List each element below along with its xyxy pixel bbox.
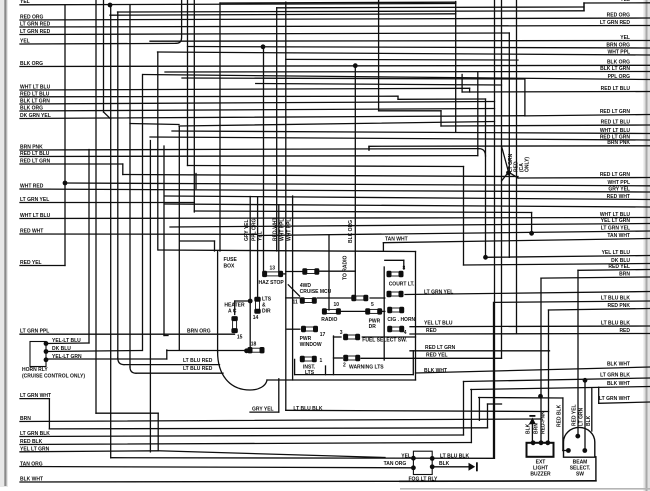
- svg-text:RED YEL: RED YEL: [572, 404, 578, 426]
- svg-text:RED LT BLU: RED LT BLU: [20, 151, 50, 157]
- svg-text:RED BLK: RED BLK: [20, 439, 43, 445]
- svg-text:RED ORG: RED ORG: [20, 14, 43, 20]
- svg-text:LT GRN RED: LT GRN RED: [20, 21, 51, 27]
- svg-text:WHT PPL: WHT PPL: [280, 219, 286, 242]
- svg-text:FOG LT RLY: FOG LT RLY: [409, 476, 439, 482]
- svg-text:RADIO: RADIO: [321, 317, 337, 323]
- svg-text:BLK LT GRN: BLK LT GRN: [20, 98, 50, 104]
- svg-text:TAN WHT: TAN WHT: [607, 233, 630, 239]
- svg-text:RED WHT: RED WHT: [20, 228, 43, 234]
- svg-text:TAN ORG: TAN ORG: [384, 461, 407, 467]
- svg-text:LT GRN: LT GRN: [579, 407, 585, 426]
- svg-text:ONLY): ONLY): [525, 157, 531, 172]
- svg-text:PPL ORG: PPL ORG: [608, 74, 631, 80]
- svg-text:YEL LT GRN: YEL LT GRN: [20, 446, 50, 452]
- svg-text:LT BLU BLK: LT BLU BLK: [601, 295, 630, 301]
- svg-text:FUSE: FUSE: [224, 257, 238, 263]
- svg-text:BUZZER: BUZZER: [530, 472, 551, 478]
- svg-text:GRY YEL: GRY YEL: [252, 406, 274, 412]
- svg-text:BLK WHT: BLK WHT: [607, 361, 630, 367]
- svg-text:BLK LT GRN: BLK LT GRN: [600, 66, 630, 72]
- svg-text:GRY YEL: GRY YEL: [244, 219, 250, 241]
- svg-text:DK BLU: DK BLU: [52, 346, 71, 352]
- svg-text:DR: DR: [369, 324, 377, 330]
- svg-text:LT GRN BLK: LT GRN BLK: [20, 431, 50, 437]
- svg-text:LTS: LTS: [305, 370, 315, 376]
- svg-text:YEL: YEL: [20, 0, 30, 5]
- svg-text:WHT LT BLU: WHT LT BLU: [20, 84, 51, 90]
- svg-text:BLK: BLK: [526, 423, 532, 434]
- svg-text:15: 15: [237, 335, 243, 341]
- svg-text:TAN WHT: TAN WHT: [385, 237, 408, 243]
- svg-text:LT BLU RED: LT BLU RED: [183, 366, 213, 372]
- svg-text:LT GRN YEL: LT GRN YEL: [424, 290, 453, 296]
- svg-text:4: 4: [404, 330, 407, 336]
- svg-text:CRUISE MCU: CRUISE MCU: [300, 289, 332, 295]
- svg-text:11: 11: [293, 300, 299, 306]
- svg-text:RED LT GRN: RED LT GRN: [20, 158, 51, 164]
- svg-text:TO RADIO: TO RADIO: [343, 256, 349, 280]
- svg-text:BRN PNK: BRN PNK: [20, 144, 43, 150]
- svg-text:FUEL SELECT SW.: FUEL SELECT SW.: [362, 338, 407, 344]
- svg-text:COURT LT.: COURT LT.: [389, 282, 415, 288]
- svg-text:HORN RLY: HORN RLY: [22, 367, 48, 373]
- svg-text:17: 17: [320, 332, 326, 338]
- svg-text:WHT PPL: WHT PPL: [608, 180, 631, 186]
- svg-text:PPL ORG: PPL ORG: [251, 218, 257, 241]
- svg-text:RED: RED: [619, 328, 630, 334]
- svg-text:RED ORG: RED ORG: [607, 12, 630, 18]
- svg-text:LT GRN RED: LT GRN RED: [600, 20, 631, 26]
- svg-text:BRN: BRN: [534, 423, 540, 434]
- svg-text:14: 14: [253, 315, 259, 321]
- svg-text:18: 18: [251, 342, 257, 348]
- svg-text:RED-WHT: RED-WHT: [273, 217, 279, 241]
- svg-text:BLK ORG: BLK ORG: [607, 60, 630, 66]
- svg-text:LT BLU BLK: LT BLU BLK: [601, 320, 630, 326]
- svg-text:BOX: BOX: [224, 264, 236, 270]
- svg-text:RED PNK: RED PNK: [607, 303, 630, 309]
- svg-text:LT GRN WHT: LT GRN WHT: [20, 393, 51, 399]
- svg-text:BLK: BLK: [439, 461, 450, 467]
- svg-text:WINDOW: WINDOW: [300, 342, 322, 348]
- svg-text:BLK ORG: BLK ORG: [348, 220, 354, 243]
- svg-text:BRN: BRN: [619, 271, 630, 277]
- svg-text:13: 13: [270, 265, 276, 271]
- svg-text:BRN ORG: BRN ORG: [187, 328, 211, 334]
- svg-text:LT GRN BLK: LT GRN BLK: [600, 372, 630, 378]
- svg-text:GRY YEL: GRY YEL: [608, 186, 630, 192]
- svg-text:RED LT BLU: RED LT BLU: [601, 86, 631, 92]
- svg-text:YEL LT GRN: YEL LT GRN: [601, 218, 631, 224]
- svg-text:LT GRN WHT: LT GRN WHT: [599, 396, 630, 402]
- svg-text:CIG . HORN: CIG . HORN: [387, 317, 415, 323]
- svg-text:RED WHT: RED WHT: [607, 194, 630, 200]
- svg-text:BLK ORG: BLK ORG: [20, 61, 43, 67]
- svg-text:RED YEL: RED YEL: [426, 352, 448, 358]
- svg-text:3: 3: [340, 330, 343, 336]
- svg-text:WHT LT BLU: WHT LT BLU: [600, 128, 631, 134]
- svg-text:YEL: YEL: [401, 453, 411, 459]
- svg-text:WHT RED: WHT RED: [20, 183, 44, 189]
- svg-text:BRN ORG: BRN ORG: [606, 42, 630, 48]
- svg-text:WHT PPL: WHT PPL: [286, 219, 292, 242]
- svg-text:LT GRN YEL: LT GRN YEL: [20, 197, 49, 203]
- svg-text:TAN ORG: TAN ORG: [20, 461, 43, 467]
- svg-text:BLK WHT: BLK WHT: [20, 476, 43, 482]
- svg-text:YEL: YEL: [258, 231, 264, 241]
- svg-text:RED LT BLU: RED LT BLU: [601, 119, 631, 125]
- svg-text:LT GRN PPL: LT GRN PPL: [20, 329, 49, 335]
- svg-text:YEL: YEL: [20, 38, 30, 44]
- svg-text:8: 8: [403, 265, 406, 271]
- svg-text:SW: SW: [576, 472, 584, 478]
- svg-text:BLK WHT: BLK WHT: [424, 368, 447, 374]
- svg-text:YEL: YEL: [620, 0, 630, 3]
- svg-text:10: 10: [334, 302, 340, 308]
- svg-text:RED BLK: RED BLK: [557, 404, 563, 427]
- svg-text:YEL LT BLU: YEL LT BLU: [602, 250, 631, 256]
- svg-text:DIR: DIR: [262, 309, 271, 315]
- svg-text:BLK ORG: BLK ORG: [20, 105, 43, 111]
- svg-text:(CRUISE CONTROL ONLY): (CRUISE CONTROL ONLY): [22, 374, 85, 380]
- svg-text:2: 2: [343, 363, 346, 369]
- svg-text:YEL LT BLU: YEL LT BLU: [424, 321, 453, 327]
- svg-text:BRN PNK: BRN PNK: [607, 140, 630, 146]
- svg-text:1: 1: [320, 358, 323, 364]
- svg-text:BRN: BRN: [20, 416, 31, 422]
- svg-text:A C: A C: [228, 309, 237, 315]
- svg-text:RED YEL: RED YEL: [20, 260, 42, 266]
- svg-text:LT BLU BLK: LT BLU BLK: [440, 453, 469, 459]
- svg-text:YEL: YEL: [620, 35, 630, 41]
- svg-text:RED: RED: [426, 328, 437, 334]
- svg-text:YEL-LT GRN: YEL-LT GRN: [52, 354, 82, 360]
- svg-text:HAZ STOP: HAZ STOP: [259, 280, 285, 286]
- svg-text:LT BLU RED: LT BLU RED: [183, 358, 213, 364]
- svg-text:WHT LT BLU: WHT LT BLU: [20, 213, 51, 219]
- svg-text:RED LT GRN: RED LT GRN: [425, 345, 456, 351]
- svg-text:BLK WHT: BLK WHT: [607, 381, 630, 387]
- svg-text:5: 5: [371, 302, 374, 308]
- svg-text:DK GRN YEL: DK GRN YEL: [20, 113, 51, 119]
- svg-text:BLK: BLK: [586, 415, 592, 426]
- svg-text:RED LT GRN: RED LT GRN: [600, 109, 631, 115]
- svg-text:LT GRN YEL: LT GRN YEL: [601, 225, 630, 231]
- svg-text:RED LT GRN: RED LT GRN: [600, 172, 631, 178]
- svg-text:RED YEL: RED YEL: [608, 264, 630, 270]
- svg-text:RED-PNK: RED-PNK: [541, 411, 547, 434]
- svg-text:LT BLU BLK: LT BLU BLK: [293, 406, 322, 412]
- svg-text:WHT PPL: WHT PPL: [608, 49, 631, 55]
- svg-text:YEL-LT BLU: YEL-LT BLU: [52, 338, 81, 344]
- svg-text:WARNING LTS: WARNING LTS: [349, 365, 384, 371]
- svg-text:RED LT BLU: RED LT BLU: [20, 91, 50, 97]
- svg-text:LT GRN RED: LT GRN RED: [20, 29, 51, 35]
